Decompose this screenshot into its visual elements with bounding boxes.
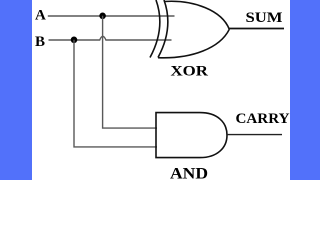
wire: CARRY output xyxy=(227,134,282,136)
node SUM label xyxy=(246,10,283,26)
svg-text:XOR: XOR xyxy=(171,63,209,79)
wire: input B horizontal with hop over A branch xyxy=(49,36,172,40)
node CARRY label xyxy=(236,111,290,127)
svg-text:A: A xyxy=(35,7,46,23)
xor-gate xyxy=(150,0,229,58)
label XOR xyxy=(171,63,209,79)
svg-text:CARRY: CARRY xyxy=(236,111,290,127)
node B label xyxy=(35,34,45,50)
node A label xyxy=(35,7,46,23)
wire: SUM output xyxy=(229,28,285,30)
label AND xyxy=(170,165,208,182)
junction dot on A wire xyxy=(99,13,106,20)
wire: input A horizontal xyxy=(48,15,175,17)
svg-text:AND: AND xyxy=(170,165,208,180)
wire: A branch vertical down and right to AND top input xyxy=(103,16,157,128)
svg-text:B: B xyxy=(35,34,45,50)
svg-text:SUM: SUM xyxy=(246,10,283,26)
wire: B branch vertical down and right to AND bottom input xyxy=(74,40,157,147)
junction dot on B wire xyxy=(71,37,78,44)
and-gate xyxy=(156,113,227,158)
